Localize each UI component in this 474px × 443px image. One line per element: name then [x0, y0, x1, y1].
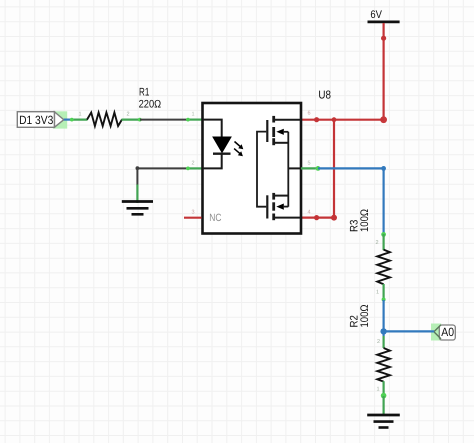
node junction A0 [380, 328, 386, 334]
svg-text:2: 2 [375, 240, 378, 246]
wire blue node to A0 [384, 330, 435, 332]
wire blue stub from D1 [64, 118, 71, 120]
svg-text:5: 5 [307, 160, 310, 166]
svg-text:1: 1 [78, 112, 81, 118]
mosfet Q-top gate [266, 120, 268, 142]
mosfet Q-bot channel dashes [272, 193, 275, 220]
svg-text:A0: A0 [441, 325, 454, 339]
svg-text:U8: U8 [318, 89, 331, 101]
mosfet Q-bot body arrow [276, 204, 288, 210]
wire common source vertical [287, 132, 289, 207]
mosfet Q-bot source wire [274, 195, 289, 197]
mosfet Q-bot drain wire [274, 217, 301, 219]
svg-text:2: 2 [377, 339, 380, 345]
svg-text:1: 1 [191, 112, 194, 118]
LED light arrow 2 [234, 149, 243, 157]
connector A0 [431, 324, 455, 341]
mosfet Q-top drain wire [274, 119, 301, 121]
resistor R2 [377, 336, 390, 398]
wire green R2 to ground [383, 396, 385, 416]
wire 6V vertical red [380, 23, 387, 123]
label R3 100Ω [349, 209, 372, 232]
wire to pin5 [288, 167, 301, 169]
pin U8-1 leg [186, 118, 202, 122]
pin U8-2 leg [186, 167, 202, 171]
wire black R1 to U8 pin1 [140, 119, 187, 121]
wire green bend to ground [136, 185, 138, 204]
wire green D1 to R1 [70, 118, 88, 122]
label R2 100Ω [349, 305, 372, 328]
wire black pin2 to bend [136, 166, 187, 185]
mosfet Q-bot gate [266, 195, 268, 218]
gate bus wire [257, 132, 266, 207]
svg-text:2: 2 [191, 160, 194, 166]
connector D1 3V3 [17, 111, 67, 128]
wire blue pin5 to R3 [318, 166, 386, 234]
wire red vertical branch to pin4 [301, 120, 337, 221]
svg-text:220Ω: 220Ω [139, 99, 162, 111]
node junction V+ [332, 117, 337, 122]
svg-text:R1: R1 [139, 87, 149, 99]
LED emitter inside U8 [203, 120, 231, 169]
svg-text:4: 4 [307, 210, 310, 216]
wire blue R3 to node [383, 300, 385, 336]
svg-text:6: 6 [307, 111, 310, 117]
svg-text:2: 2 [126, 112, 129, 118]
wire red pin6 horizontal [301, 117, 384, 122]
svg-text:1: 1 [376, 387, 379, 393]
pin U8-5 leg green [301, 166, 320, 171]
svg-text:100Ω: 100Ω [359, 209, 371, 232]
mosfet Q-top body arrow [276, 129, 288, 135]
mosfet Q-top source wire [274, 142, 289, 144]
ground GND1 [122, 202, 153, 215]
wire green R1 right leg [122, 118, 142, 122]
svg-text:1: 1 [376, 290, 379, 296]
svg-text:100Ω: 100Ω [359, 305, 371, 328]
label R1 220Ω [139, 87, 162, 111]
opto relay U8 box [203, 103, 302, 234]
pin U8-3 NC leg red [184, 217, 202, 219]
svg-text:6V: 6V [370, 9, 382, 21]
power symbol 6V [368, 9, 400, 22]
wire blue tip into A0 [431, 330, 434, 332]
mosfet Q-top channel dashes [272, 116, 275, 145]
svg-text:3: 3 [191, 210, 194, 216]
svg-text:D1 3V3: D1 3V3 [19, 113, 53, 127]
resistor R3 [377, 232, 390, 302]
ground GND2 [367, 415, 400, 428]
resistor R1 [87, 113, 122, 127]
svg-text:NC: NC [209, 212, 222, 224]
LED light arrow 1 [235, 142, 244, 150]
